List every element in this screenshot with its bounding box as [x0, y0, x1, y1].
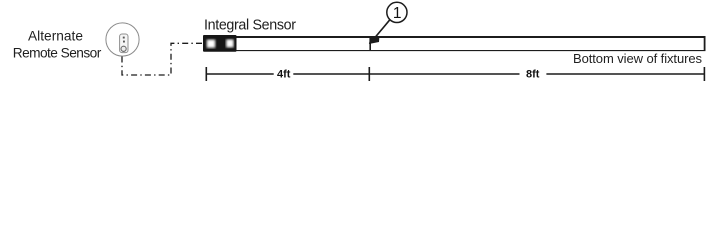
svg-text:Alternate: Alternate [28, 28, 83, 43]
dimension tick middle [368, 67, 370, 81]
svg-text:4ft: 4ft [277, 69, 291, 81]
dash-dot connection wire [122, 43, 204, 75]
sensor device body [120, 34, 128, 53]
fixture right edge [704, 36, 706, 51]
dimension line segments [206, 67, 704, 81]
svg-text:Bottom view of fixtures: Bottom view of fixtures [573, 51, 703, 66]
fixture junction line [369, 36, 371, 51]
svg-text:8ft: 8ft [526, 69, 540, 81]
fixture top edge [204, 36, 706, 38]
fixture bar body [204, 36, 706, 51]
callout leader line [376, 20, 390, 37]
dimension tick right [703, 67, 705, 81]
sensor dots [123, 37, 125, 39]
sensor lens [121, 46, 126, 51]
integral sensor block [203, 35, 237, 52]
label: Alternate Remote Sensor [13, 28, 102, 60]
svg-text:Integral Sensor: Integral Sensor [204, 18, 296, 34]
svg-text:Remote Sensor: Remote Sensor [13, 46, 102, 61]
svg-text:1: 1 [393, 5, 402, 22]
callout arrowhead [369, 36, 380, 44]
callout circle 1 [387, 2, 407, 22]
fixture bottom edge [204, 50, 706, 52]
dimension tick left [205, 67, 207, 81]
remote sensor symbol circle [106, 23, 139, 56]
